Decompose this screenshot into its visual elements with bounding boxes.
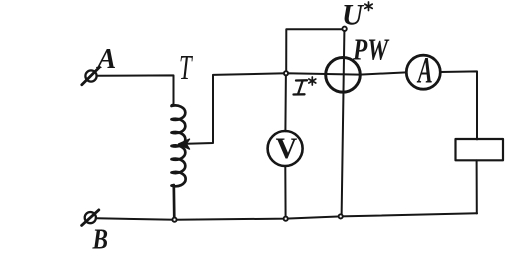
svg-text:V: V bbox=[276, 132, 298, 165]
svg-text:A: A bbox=[96, 44, 117, 75]
svg-text:A: A bbox=[416, 50, 432, 91]
svg-text:PW: PW bbox=[352, 31, 390, 66]
svg-text:T: T bbox=[179, 49, 194, 87]
svg-text:B: B bbox=[92, 224, 108, 256]
svg-text:U: U bbox=[342, 0, 364, 32]
